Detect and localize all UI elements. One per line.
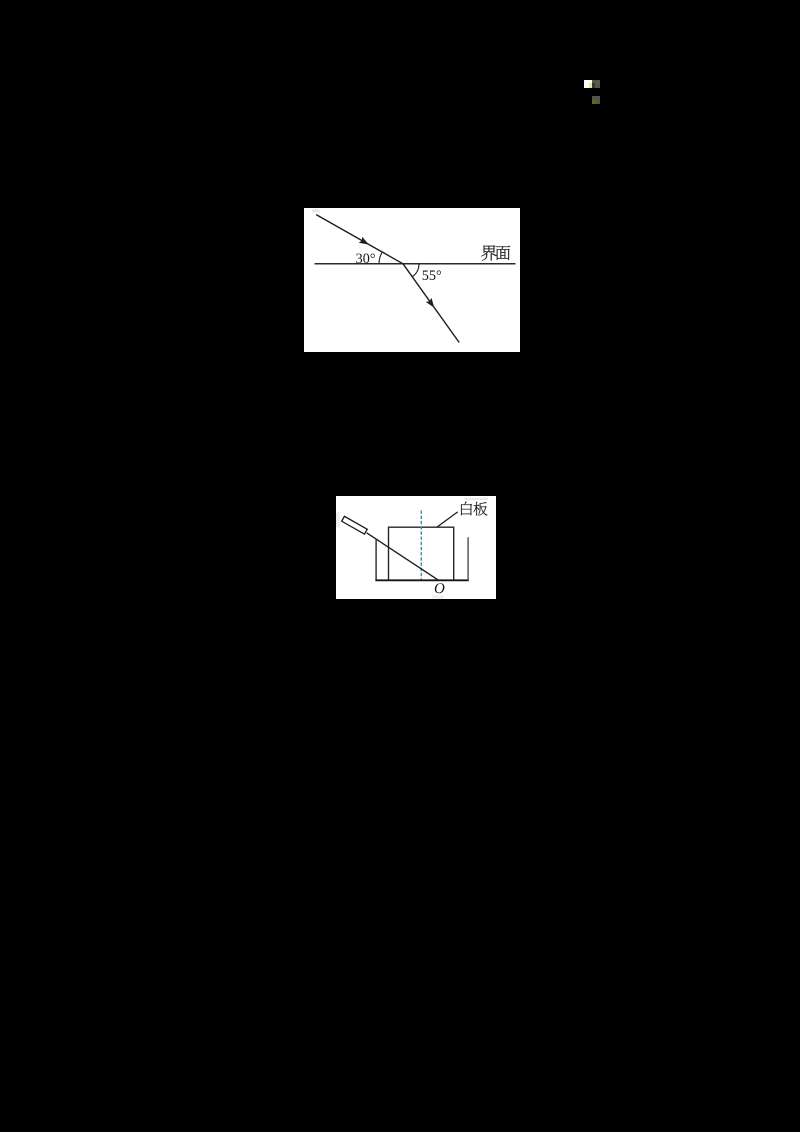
- incident ray arrowhead: [359, 236, 371, 247]
- label O: [435, 583, 445, 593]
- interface line: [315, 262, 516, 264]
- scan artifact gray patch top-left: [312, 209, 320, 212]
- container left wall: [375, 539, 377, 580]
- label 55deg: [423, 270, 441, 280]
- 30-degree arc: [379, 252, 382, 264]
- label jie (boundary) glyph: [481, 245, 497, 260]
- incident ray: [316, 214, 403, 263]
- label mian (surface) glyph: [496, 245, 511, 259]
- thumbnail white square yellow corner: [589, 83, 592, 88]
- label ban (board) glyph: [474, 501, 488, 515]
- dashed normal line: [420, 510, 422, 579]
- scan artifact gray strip left: [336, 512, 340, 527]
- 55-degree arc: [412, 263, 419, 276]
- container bottom: [375, 579, 468, 581]
- figure 2: laser pointer and whiteboard diagram: [336, 496, 496, 599]
- thumbnail gray square 2: [592, 96, 600, 104]
- leader line to label: [437, 511, 458, 526]
- figure 1: refraction diagram: [304, 208, 520, 353]
- label 30deg: [356, 253, 375, 263]
- laser ray: [367, 532, 439, 579]
- label bai (white) glyph: [461, 501, 472, 515]
- container right wall: [467, 537, 469, 580]
- laser pointer body: [342, 516, 368, 534]
- refracted ray: [403, 263, 459, 342]
- thumbnail white square: [584, 80, 592, 88]
- whiteboard rectangle: [389, 527, 454, 580]
- thumbnail gray square 1 olive mark: [592, 83, 595, 88]
- refracted ray arrowhead: [426, 297, 437, 309]
- thumbnail gray square 2 olive mark: [592, 100, 596, 105]
- thumbnail gray square 1: [592, 80, 600, 88]
- scan artifact gray strip top: [464, 497, 488, 499]
- scan artifact gray patch below O: [432, 595, 444, 598]
